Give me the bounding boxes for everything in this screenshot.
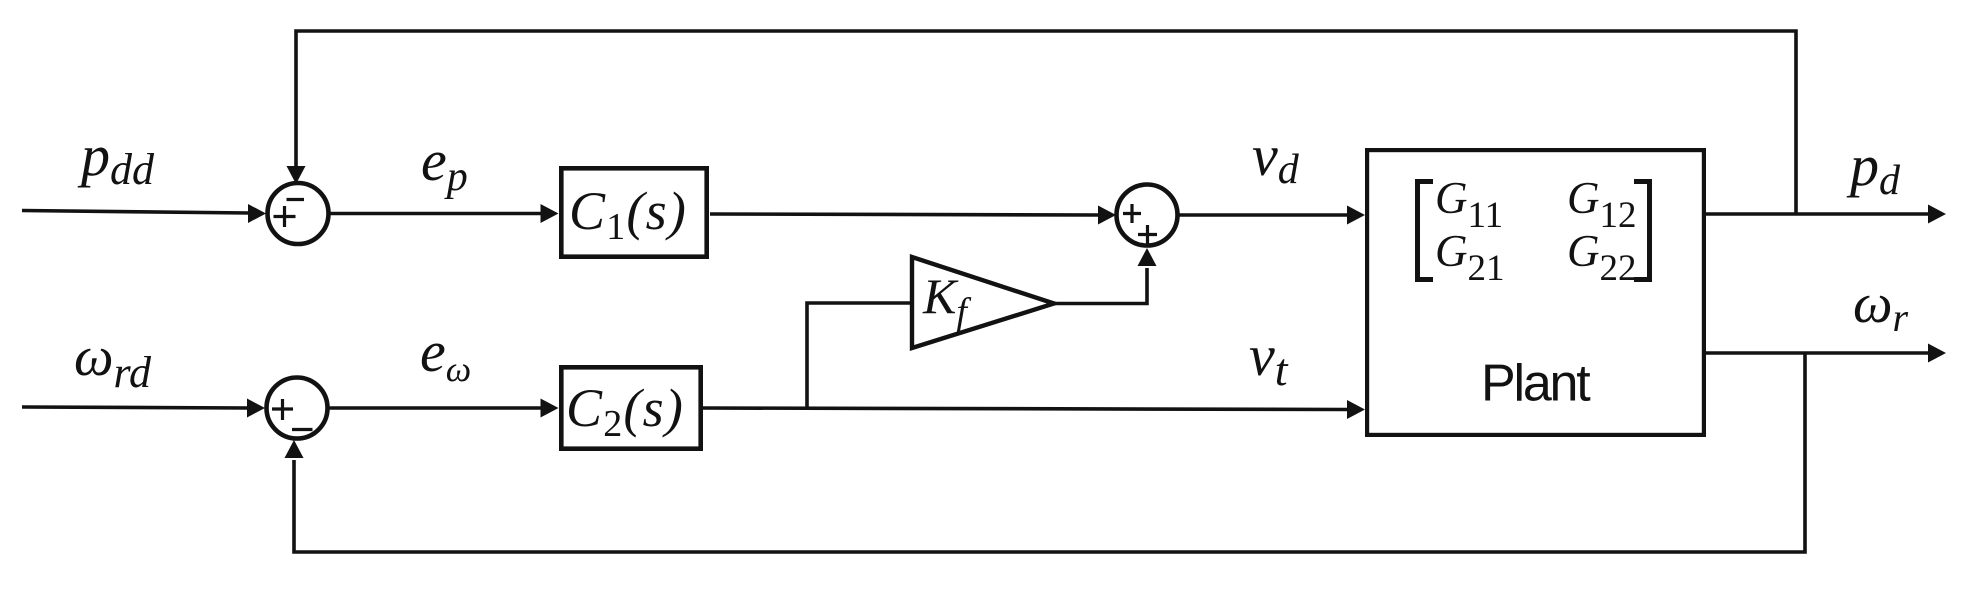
svg-text:vd: vd (1252, 123, 1300, 193)
arrowhead into C1 (541, 204, 559, 223)
svg-text:ωrd: ωrd (74, 326, 152, 397)
matrix right bracket (1634, 182, 1650, 280)
arrowhead omega_r output (1928, 344, 1946, 363)
block C1 (561, 168, 706, 256)
matrix left bracket (1418, 182, 1434, 280)
wire C1 to sum3 (710, 214, 1098, 215)
gain Kf triangle (912, 257, 1054, 348)
wire input omega_rd (22, 407, 249, 408)
wire Kf output to sum3 (1054, 268, 1147, 304)
wire top feedback loop (296, 31, 1796, 214)
svg-text:C2(s): C2(s) (566, 378, 684, 445)
wire input p_dd (22, 211, 250, 214)
S1 plus sign (274, 206, 296, 227)
summing junction S3 (1117, 185, 1178, 246)
arrowhead into sum1 top (287, 166, 306, 184)
block C2 (561, 367, 700, 448)
wire plant to omega_r output (1706, 351, 1930, 355)
wire bottom feedback loop (294, 353, 1805, 552)
svg-text:pdd: pdd (77, 123, 155, 194)
arrowhead into plant v_t (1347, 400, 1365, 419)
arrowhead into sum2 bottom (285, 440, 304, 458)
wire sum2 to C2 (329, 406, 542, 410)
S1 minus sign (287, 198, 305, 201)
plant block (1367, 150, 1704, 435)
arrowhead into sum2 left (247, 399, 265, 418)
arrowhead into sum3 bottom (1138, 248, 1157, 266)
wire sum1 to C1 (330, 212, 542, 216)
S2 plus sign (272, 399, 293, 420)
arrowhead into sum3 left (1098, 206, 1116, 225)
wire plant to p_d output (1706, 212, 1930, 216)
wire C2 to plant (v_t) (703, 408, 1348, 410)
arrowhead p_d output (1928, 205, 1946, 224)
svg-text:eω: eω (420, 319, 471, 389)
arrowhead into plant v_d (1347, 206, 1365, 225)
svg-text:ep: ep (421, 128, 468, 200)
wire sum3 to plant (v_d) (1179, 213, 1348, 217)
arrowhead into sum1 left (248, 204, 266, 223)
svg-text:pd: pd (1846, 133, 1901, 204)
S2 minus sign (292, 428, 313, 431)
svg-text:ωr: ωr (1853, 273, 1909, 340)
svg-text:Plant: Plant (1481, 355, 1591, 413)
wire branch from v_t to Kf (807, 303, 911, 409)
svg-text:vt: vt (1249, 323, 1289, 395)
summing junction S2 (267, 378, 328, 439)
svg-text:C1(s): C1(s) (569, 181, 687, 248)
S3 upper plus sign (1123, 204, 1141, 223)
summing junction S1 (268, 183, 329, 244)
S3 lower plus sign (1138, 225, 1157, 244)
arrowhead into C2 (541, 399, 559, 418)
